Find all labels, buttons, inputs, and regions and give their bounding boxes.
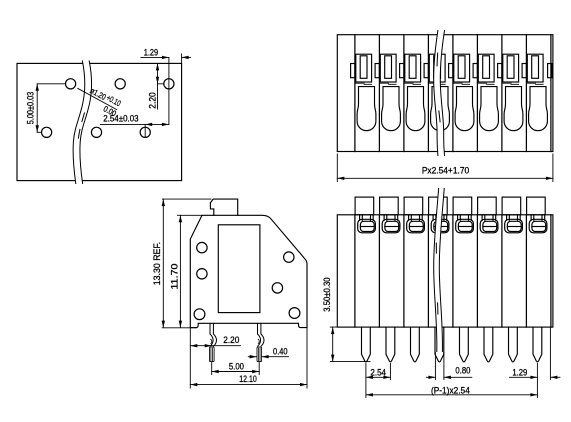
svg-text:12.10: 12.10 xyxy=(239,374,257,384)
svg-text:5.00±0.03: 5.00±0.03 xyxy=(26,92,36,125)
front view release slots pos 8 xyxy=(531,215,545,221)
top view actuator button pos 4 xyxy=(429,54,445,82)
front view pin 1 xyxy=(362,327,371,362)
front view wire opening pos 8 xyxy=(529,219,547,233)
top view side latch pos 7 xyxy=(522,64,526,78)
top view wire entry slot pos 2 xyxy=(382,87,401,131)
top view actuator button pos 2 xyxy=(380,54,396,82)
dim 2.54 extensions + line xyxy=(366,364,391,398)
dim Px2.54+1.70 line xyxy=(337,177,553,179)
front view push button pos 6 xyxy=(478,197,497,215)
left edge extension down xyxy=(190,328,307,388)
front view push button pos 2 xyxy=(380,197,399,215)
side view solder pin 1 xyxy=(210,324,217,362)
front view wire opening pos 3 xyxy=(407,219,425,233)
front view partition 2 xyxy=(378,215,380,327)
top view side latch pos 3 xyxy=(424,64,428,78)
footprint hole 5 xyxy=(91,127,101,137)
svg-text:13.30 REF.: 13.30 REF. xyxy=(152,242,162,286)
top view actuator button pos 8 xyxy=(527,54,543,82)
side view hole 1 xyxy=(197,242,207,252)
front view wire opening pos 7 xyxy=(505,219,523,233)
front view push button pos 1 xyxy=(355,197,374,215)
footprint outline xyxy=(17,63,182,180)
top view partition wall 2 xyxy=(378,35,380,152)
dim 5.00±0.03 line xyxy=(36,84,38,133)
svg-text:5.00: 5.00 xyxy=(229,361,244,371)
side view hole 6 xyxy=(289,308,300,319)
front view pin 7 xyxy=(509,327,518,362)
footprint hole 2 xyxy=(115,79,125,89)
front view pin 3 xyxy=(411,327,420,362)
front view release slots pos 4 xyxy=(433,215,447,221)
footprint hole 6 xyxy=(140,127,150,137)
svg-text:2.54: 2.54 xyxy=(370,367,386,377)
svg-text:2.20: 2.20 xyxy=(148,92,158,109)
top view partition wall 3 xyxy=(403,35,405,152)
dim 0.80 extensions + lines xyxy=(435,353,444,380)
front view release slots pos 2 xyxy=(384,215,398,221)
dim 0.40 lines xyxy=(248,356,256,358)
dim 2.20 line xyxy=(157,63,159,83)
front view release slots pos 6 xyxy=(482,215,496,221)
top view partition wall 8 xyxy=(525,35,527,152)
top view side latch pos 6 xyxy=(498,64,502,78)
top view body outline xyxy=(337,35,553,152)
bottom extension line xyxy=(162,327,196,329)
front view body outline xyxy=(337,215,553,327)
front view wire opening pos 2 xyxy=(382,219,400,233)
top view side latch pos 5 xyxy=(473,64,477,78)
front view push button pos 7 xyxy=(502,197,521,215)
top view partition wall 1 xyxy=(354,35,356,152)
footprint hole 4 xyxy=(42,127,52,137)
side view hole 2 xyxy=(197,269,207,279)
front view pin 5 xyxy=(460,327,469,362)
dim 12.10 line xyxy=(190,384,307,386)
front view partition 9 xyxy=(550,215,552,327)
top view partition wall 7 xyxy=(501,35,503,152)
front view push button pos 8 xyxy=(527,197,546,215)
front view pin 8 xyxy=(533,327,542,362)
dim Px2.54+1.70 extension lines xyxy=(337,154,553,182)
top view actuator button pos 1 xyxy=(356,54,372,82)
front view release slots pos 7 xyxy=(507,215,521,221)
svg-text:Px2.54+1.70: Px2.54+1.70 xyxy=(422,166,469,176)
front view partition 5 xyxy=(452,215,454,327)
front view partition 7 xyxy=(501,215,503,327)
side view hole 5 xyxy=(194,309,205,320)
dim 2.54±0.03 line xyxy=(145,123,169,125)
top view wire entry slot pos 8 xyxy=(529,87,548,131)
top view partition wall 9 xyxy=(550,35,552,152)
front view wire opening pos 6 xyxy=(480,219,498,233)
top view wire entry slot pos 1 xyxy=(357,87,376,131)
svg-text:2.20: 2.20 xyxy=(223,335,239,345)
footprint hole 3 xyxy=(164,79,174,89)
front view wire opening pos 5 xyxy=(456,219,474,233)
top view side latch pos 8 xyxy=(548,64,552,78)
front view wire opening pos 1 xyxy=(358,219,376,233)
side view top tab with notch xyxy=(210,199,237,215)
dim 11.70 extension + line xyxy=(178,214,203,216)
side view hole 4 xyxy=(272,283,282,293)
side view solder pin 2 xyxy=(257,324,264,362)
front view wire opening pos 4 xyxy=(431,219,449,233)
top view wire entry slot pos 6 xyxy=(480,87,499,131)
top view partition wall 6 xyxy=(476,35,478,152)
front view partition 1 xyxy=(354,215,356,327)
front view pin 2 xyxy=(386,327,395,362)
front view pin 4 xyxy=(435,327,444,362)
front view release slots pos 3 xyxy=(409,215,423,221)
front view push button pos 3 xyxy=(404,197,423,215)
leader line hole diameter xyxy=(78,88,117,109)
svg-text:1.29: 1.29 xyxy=(144,47,158,57)
top view partition wall 5 xyxy=(452,35,454,152)
dim 1.29 lines xyxy=(141,56,169,58)
dim 2.20 line xyxy=(190,345,211,347)
dim (P-1)x2.54 line xyxy=(366,394,538,396)
front view push button pos 5 xyxy=(453,197,472,215)
svg-text:1.29: 1.29 xyxy=(512,367,527,377)
front view pin 6 xyxy=(484,327,493,362)
top view wire entry slot pos 3 xyxy=(406,87,425,131)
top view side latch pos 2 xyxy=(400,64,404,78)
side view hole 3 xyxy=(284,252,294,262)
dim 5.00 extensions + line xyxy=(212,362,260,375)
svg-text:(P-1)x2.54: (P-1)x2.54 xyxy=(431,385,470,395)
top view actuator button pos 5 xyxy=(454,54,470,82)
front view push button pos 4 xyxy=(429,197,448,215)
dim 13.30 REF extension + line xyxy=(162,198,211,200)
top view actuator button pos 3 xyxy=(405,54,421,82)
top view actuator button pos 6 xyxy=(478,54,494,82)
front view break line xyxy=(436,189,441,352)
side view body outline xyxy=(190,215,307,327)
top view break line xyxy=(437,31,441,156)
front view release slots pos 1 xyxy=(360,215,374,221)
front view partition 6 xyxy=(476,215,478,327)
top view side latch pos 1 xyxy=(375,64,379,78)
front view partition 4 xyxy=(427,215,429,327)
dim 1.29 extensions + lines xyxy=(537,327,550,397)
side view centre window xyxy=(218,225,260,313)
dim 5.00±0.03 leader lines xyxy=(37,84,65,133)
svg-text:0.40: 0.40 xyxy=(273,346,288,356)
top view partition wall 4 xyxy=(427,35,429,152)
svg-text:11.70: 11.70 xyxy=(169,263,179,289)
svg-text:0.80: 0.80 xyxy=(455,366,470,376)
svg-text:3.50±0.30: 3.50±0.30 xyxy=(322,277,332,311)
front view release slots pos 5 xyxy=(458,215,472,221)
footprint break line xyxy=(77,61,89,184)
top view actuator button pos 7 xyxy=(503,54,519,82)
top view wire entry slot pos 7 xyxy=(504,87,523,131)
front view partition 8 xyxy=(525,215,527,327)
dim 3.50±0.30 extensions + line xyxy=(330,327,370,362)
top view wire entry slot pos 4 xyxy=(431,87,450,131)
front view partition 3 xyxy=(403,215,405,327)
leader text Ø1.20 +0.10/0.00 xyxy=(84,85,123,119)
top view wire entry slot pos 5 xyxy=(455,87,474,131)
top view side latch pos 4 xyxy=(449,64,453,78)
footprint hole 1 xyxy=(66,79,76,89)
top view end latch left margin xyxy=(351,64,355,78)
